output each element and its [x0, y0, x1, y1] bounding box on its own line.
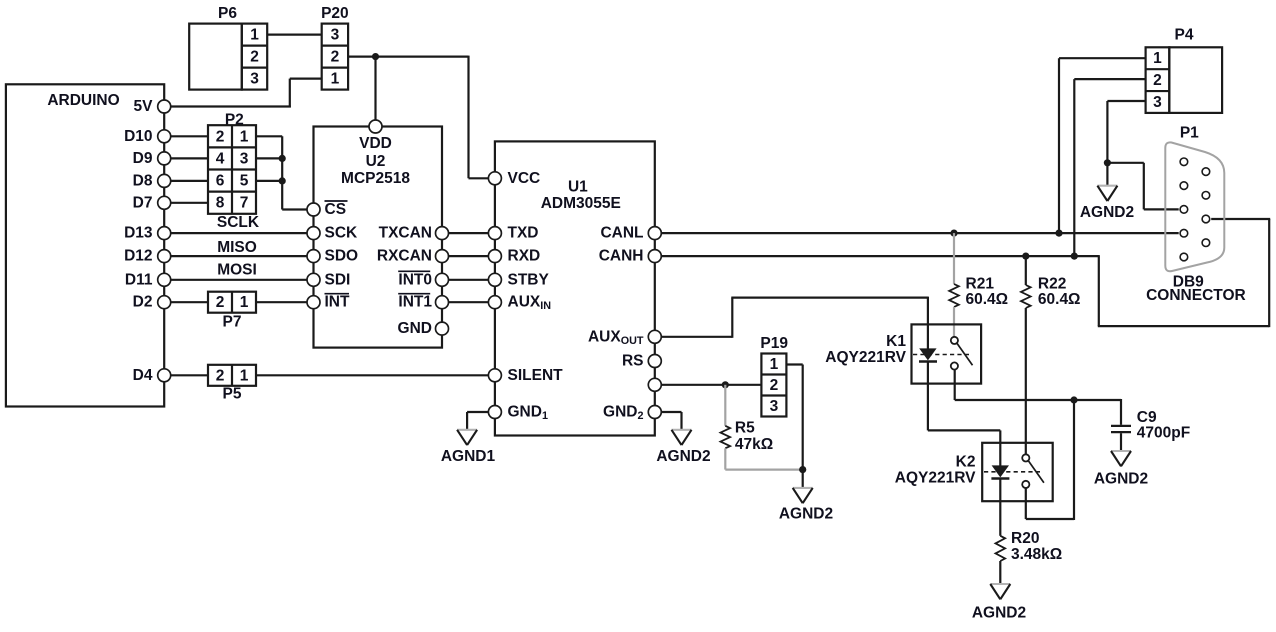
DB9 pin holes [1180, 158, 1188, 166]
node K1-K2-C9 [1070, 396, 1077, 403]
wire TX/RX STBY [449, 279, 488, 281]
svg-text:2: 2 [216, 128, 225, 145]
wire AUXOUT b [731, 298, 733, 338]
wire D2 to P7 [171, 301, 208, 303]
ground AGND2 (R5) [793, 487, 813, 489]
wire P19.1 down [802, 365, 804, 470]
wire AUXOUT c [731, 297, 928, 299]
svg-text:SCK: SCK [325, 225, 359, 242]
DB9 shell outline [1165, 142, 1224, 271]
svg-text:AQY221RV: AQY221RV [825, 349, 906, 366]
node CANL-R21 [950, 230, 957, 237]
U2 pin TXCAN [436, 227, 449, 240]
svg-text:VDD: VDD [359, 135, 392, 152]
wire 5V rail [171, 105, 291, 107]
wire R5 top (gray) [724, 385, 726, 426]
svg-text:AUXIN: AUXIN [508, 294, 552, 313]
arduino pin D8 [158, 174, 171, 187]
svg-text:1: 1 [240, 367, 249, 384]
wire D10 to P2 [171, 135, 208, 137]
wire CANH bottom [1098, 325, 1269, 327]
svg-text:4700pF: 4700pF [1137, 424, 1190, 441]
svg-text:GND2: GND2 [603, 404, 643, 423]
svg-text:3: 3 [331, 27, 340, 44]
svg-text:1: 1 [1153, 50, 1162, 67]
ground AGND2 (GND2) [672, 429, 692, 431]
wire R21 top (gray) [953, 233, 955, 284]
wire P5 to U1 SILENT [256, 374, 488, 376]
svg-text:P19: P19 [760, 335, 788, 352]
svg-text:VCC: VCC [508, 170, 541, 187]
U1 pin RS [648, 355, 661, 368]
svg-text:D4: D4 [133, 367, 153, 384]
svg-text:K1: K1 [886, 333, 906, 350]
svg-text:AGND2: AGND2 [656, 448, 710, 465]
wire K1 switch out [954, 370, 956, 400]
U2 pin CS [307, 203, 320, 216]
arduino pin D9 [158, 152, 171, 165]
svg-text:ARDUINO: ARDUINO [47, 92, 119, 109]
svg-text:3: 3 [1153, 94, 1162, 111]
U1 pin GND1 [488, 406, 501, 419]
svg-text:RXD: RXD [508, 248, 541, 265]
connector P2 (2x4 header) [208, 125, 256, 214]
wire VCC feed vertical [467, 56, 469, 179]
U1 pin RXD [488, 250, 501, 263]
wire P20.1 horizontal [290, 77, 322, 79]
U1 pin 14 (to P19) [648, 378, 661, 391]
svg-text:R21: R21 [966, 276, 995, 293]
U2 pin INT0 [436, 273, 449, 286]
svg-text:AGND1: AGND1 [441, 448, 496, 465]
wire P6.1 to P20.3 [267, 33, 322, 35]
svg-text:D8: D8 [133, 172, 153, 189]
svg-text:TXD: TXD [508, 225, 539, 242]
U2 pin INT [307, 296, 320, 309]
connector P4 body [1169, 47, 1222, 113]
svg-text:SDI: SDI [325, 271, 351, 288]
svg-text:RXCAN: RXCAN [377, 248, 432, 265]
K2 internal dashed link [984, 471, 1040, 473]
svg-text:AGND2: AGND2 [1080, 204, 1134, 221]
K1 internal dashed link [913, 354, 969, 356]
connector P4 pins 1-3 [1146, 47, 1170, 113]
U1 pin VCC [488, 172, 501, 185]
wire D8 to P2 [171, 180, 208, 182]
node VDD junction [372, 53, 379, 60]
wire K2 switch out [1025, 488, 1027, 519]
U2 pin INT1 [436, 296, 449, 309]
svg-text:CANL: CANL [600, 225, 643, 242]
capacitor C9 [1111, 425, 1131, 427]
svg-text:P6: P6 [218, 5, 237, 22]
svg-text:CONNECTOR: CONNECTOR [1146, 287, 1246, 304]
relay K2 body [982, 443, 1052, 501]
ground AGND2 (C9) [1111, 450, 1131, 452]
svg-text:D12: D12 [124, 248, 152, 265]
svg-text:D7: D7 [133, 194, 153, 211]
U2 pin GND [436, 322, 449, 335]
connector P7 [208, 292, 256, 313]
wire K2 to R20 [999, 501, 1001, 536]
svg-text:P20: P20 [321, 5, 349, 22]
wire P19.1 right [786, 363, 802, 365]
wire P2.1 right [256, 135, 282, 137]
svg-text:AGND2: AGND2 [972, 605, 1026, 622]
U2 pin RXCAN [436, 250, 449, 263]
svg-text:1: 1 [240, 294, 249, 311]
svg-text:SILENT: SILENT [508, 367, 564, 384]
wire CANH right riser [1268, 219, 1270, 327]
wire gnd drop [802, 470, 804, 488]
wire GND2 hook [662, 411, 682, 413]
wire K1 out to C9 [955, 399, 1121, 401]
svg-text:47kΩ: 47kΩ [735, 436, 773, 453]
svg-text:60.4Ω: 60.4Ω [966, 291, 1009, 308]
svg-text:8: 8 [216, 195, 225, 212]
svg-text:D10: D10 [124, 128, 152, 145]
svg-text:AGND2: AGND2 [779, 506, 833, 523]
wire R22 top [1025, 256, 1027, 285]
U2 pin SCK [307, 227, 320, 240]
svg-text:D11: D11 [125, 271, 153, 288]
arduino pin D11 [158, 273, 171, 286]
wire AUXOUT a [662, 336, 733, 338]
svg-text:D13: D13 [124, 225, 153, 242]
svg-text:7: 7 [240, 195, 249, 212]
ground AGND1 [457, 429, 477, 431]
svg-text:5: 5 [240, 173, 249, 190]
svg-text:MCP2518: MCP2518 [341, 170, 410, 187]
U1 pin CANL [648, 227, 661, 240]
svg-text:1: 1 [331, 71, 340, 88]
U1 pin STBY [488, 273, 501, 286]
wire junction to U2 VDD [374, 57, 376, 121]
svg-text:2: 2 [1153, 72, 1162, 89]
svg-text:3: 3 [770, 398, 779, 415]
wire GND1 hook [467, 411, 488, 413]
wire P2.3 right [256, 157, 282, 159]
svg-text:2: 2 [250, 49, 259, 66]
svg-text:R22: R22 [1038, 276, 1066, 293]
svg-text:SDO: SDO [325, 248, 359, 265]
resistor R22 [1021, 285, 1031, 308]
wire CANH to DB9 pin7 [1211, 218, 1270, 220]
U1 pin TXD [488, 227, 501, 240]
arduino pin D2 [158, 296, 171, 309]
wire P2.5 right [256, 180, 282, 182]
svg-text:4: 4 [216, 150, 225, 167]
resistor R5 [721, 426, 731, 449]
wire TX/RX RXD [449, 255, 488, 257]
arduino pin D7 [158, 196, 171, 209]
node P2.5 junction [279, 177, 286, 184]
svg-text:U1: U1 [568, 178, 588, 195]
wire R21 bottom (gray) [953, 307, 955, 337]
svg-text:AQY221RV: AQY221RV [895, 470, 976, 487]
wire CS bus to U2 CS [282, 208, 307, 210]
node CANH-P4.2 [1071, 253, 1078, 260]
svg-text:CS: CS [325, 201, 347, 218]
svg-text:GND1: GND1 [508, 404, 548, 423]
wire AUXOUT d [927, 297, 929, 325]
svg-text:P7: P7 [223, 314, 242, 331]
wire P20.1 down to 5V [289, 79, 291, 108]
node P2.3 junction [279, 155, 286, 162]
wire R22 to K2 switch [1025, 308, 1027, 454]
U1 pin SILENT [488, 369, 501, 382]
svg-text:1: 1 [250, 27, 259, 44]
svg-text:6: 6 [216, 173, 225, 190]
K2 switch contacts [1022, 454, 1029, 461]
node P19.2-R5 [722, 381, 729, 388]
connector P6 body [189, 24, 242, 90]
U2 pin SDO [307, 250, 320, 263]
svg-text:5V: 5V [134, 98, 154, 115]
svg-text:INT0: INT0 [398, 271, 432, 288]
arduino pin D10 [158, 130, 171, 143]
connector P6 pins 1-3 [242, 24, 267, 90]
arduino pin D4 [158, 369, 171, 382]
arduino pin 5V [158, 100, 171, 113]
U1 pin GND2 [648, 406, 661, 419]
connector P20 pins 3-2-1 [322, 24, 348, 90]
svg-text:2: 2 [770, 377, 779, 394]
wire P4.1 [1059, 57, 1146, 59]
svg-text:MOSI: MOSI [217, 262, 257, 279]
U2 pin VDD [369, 120, 382, 133]
wire R5 to gnd node (gray) [725, 469, 802, 471]
svg-text:3: 3 [240, 150, 249, 167]
wire P4.3 to DB9 pin3 [1107, 162, 1143, 164]
wire D11-SDI [171, 279, 307, 281]
svg-text:U2: U2 [366, 153, 386, 170]
svg-text:P4: P4 [1175, 27, 1194, 44]
K2 LED diode [999, 443, 1001, 466]
svg-text:CANH: CANH [599, 248, 644, 265]
wire D4 to P5 [171, 374, 208, 376]
svg-text:AGND2: AGND2 [1094, 470, 1148, 487]
IC U1 body [495, 141, 655, 435]
connector P5 [208, 365, 256, 386]
wire R5 bottom (gray) [724, 448, 726, 469]
svg-text:RS: RS [622, 353, 644, 370]
wire P20.2 to VCC feed [348, 55, 468, 57]
wire TX/RX TXD [449, 232, 488, 234]
svg-text:2: 2 [216, 294, 225, 311]
wire CANL [662, 232, 1179, 234]
svg-text:P1: P1 [1180, 125, 1199, 142]
wire C9 top [1120, 399, 1122, 425]
arduino pin D12 [158, 250, 171, 263]
wire P4.3 [1107, 100, 1145, 102]
node CANL-P4.1 [1055, 230, 1062, 237]
svg-text:TXCAN: TXCAN [379, 225, 432, 242]
node CANH-R22 [1022, 253, 1029, 260]
U2 pin SDI [307, 273, 320, 286]
ground AGND2 (R20) [990, 583, 1010, 585]
svg-text:D2: D2 [133, 294, 153, 311]
resistor R21 [949, 284, 959, 307]
svg-text:STBY: STBY [508, 271, 550, 288]
svg-text:R20: R20 [1011, 530, 1039, 547]
wire D7 to P2 [171, 202, 208, 204]
svg-text:GND: GND [398, 320, 432, 337]
K1 switch contacts [951, 337, 958, 344]
wire R20 to gnd [999, 561, 1001, 584]
svg-text:1: 1 [240, 128, 249, 145]
svg-text:MISO: MISO [217, 239, 257, 256]
wire P4.2 [1074, 78, 1145, 80]
IC U2 body [314, 127, 443, 348]
K1 LED diode [927, 324, 929, 349]
svg-text:INT1: INT1 [398, 294, 432, 311]
resistor R20 [996, 536, 1006, 561]
U1 pin CANH [648, 250, 661, 263]
svg-text:INT: INT [325, 294, 351, 311]
svg-text:ADM3055E: ADM3055E [541, 195, 621, 212]
svg-text:1: 1 [770, 356, 779, 373]
wire VCC feed horizontal [469, 177, 489, 179]
svg-text:C9: C9 [1137, 409, 1157, 426]
wire TX/RX AUXIN [449, 301, 488, 303]
wire D13-SCK [171, 232, 307, 234]
wire CANH down [1098, 255, 1100, 326]
svg-text:SCLK: SCLK [217, 214, 260, 231]
wire C9 bottom [1120, 433, 1122, 451]
node P4.3 gnd junction [1104, 159, 1111, 166]
arduino pin D13 [158, 227, 171, 240]
ground AGND2 (P4) [1097, 185, 1117, 187]
svg-text:K2: K2 [956, 454, 976, 471]
wire D9 to P2 [171, 157, 208, 159]
relay K1 body [912, 324, 982, 383]
wire D12-SDO [171, 255, 307, 257]
svg-text:60.4Ω: 60.4Ω [1038, 291, 1081, 308]
svg-text:D9: D9 [133, 150, 153, 167]
arduino board block [6, 84, 164, 406]
wire CS bus vertical [281, 136, 283, 209]
svg-text:2: 2 [331, 49, 340, 66]
svg-text:R5: R5 [735, 420, 755, 437]
wire K1 diode to K2 [927, 384, 929, 431]
wire P7 to U2 INT [256, 301, 307, 303]
U1 pin AUXOUT [648, 330, 661, 343]
wire CANH [662, 255, 1099, 257]
U1 pin AUXIN [488, 296, 501, 309]
svg-text:P5: P5 [223, 386, 242, 403]
svg-text:3.48kΩ: 3.48kΩ [1011, 546, 1062, 563]
svg-text:AUXOUT: AUXOUT [588, 328, 644, 347]
svg-text:3: 3 [250, 71, 259, 88]
wire pin14 to P19.2 [662, 384, 762, 386]
node R5-P19.1-gnd [799, 466, 806, 473]
svg-text:2: 2 [216, 367, 225, 384]
